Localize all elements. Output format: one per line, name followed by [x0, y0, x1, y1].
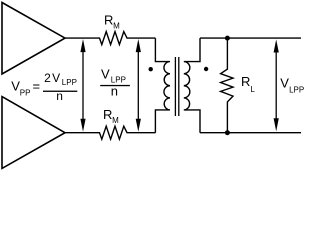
- svg-text:2: 2: [44, 71, 51, 85]
- svg-text:M: M: [113, 22, 120, 31]
- svg-text:M: M: [112, 116, 119, 125]
- svg-text:LPP: LPP: [289, 86, 304, 95]
- svg-text:R: R: [103, 107, 112, 122]
- svg-text:LPP: LPP: [62, 78, 77, 87]
- svg-text:V: V: [101, 67, 110, 82]
- svg-text:=: =: [33, 79, 41, 94]
- svg-text:R: R: [241, 74, 250, 89]
- svg-text:L: L: [250, 85, 255, 94]
- svg-text:n: n: [111, 83, 118, 98]
- svg-text:V: V: [280, 76, 289, 91]
- svg-text:PP: PP: [20, 89, 31, 98]
- svg-text:n: n: [56, 89, 63, 103]
- svg-text:V: V: [52, 71, 60, 85]
- svg-text:R: R: [104, 13, 113, 28]
- svg-text:LPP: LPP: [111, 75, 126, 84]
